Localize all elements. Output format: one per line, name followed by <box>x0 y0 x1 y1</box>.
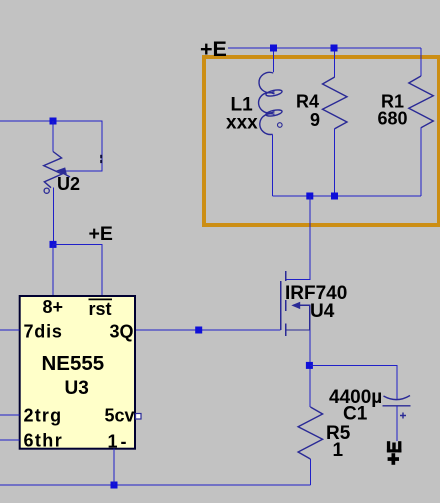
svg-text:+E: +E <box>89 223 113 245</box>
node junction source/C1 <box>306 362 313 369</box>
wire R1 bottom lead <box>420 128 422 196</box>
wiper arrow of U2 <box>60 172 70 178</box>
svg-text:7dis: 7dis <box>24 322 63 342</box>
wire 6thr <box>0 439 20 441</box>
wire 7dis <box>0 329 20 331</box>
unconnected pin marker 5cv <box>136 414 142 420</box>
svg-text:9: 9 <box>310 110 320 130</box>
svg-text:6thr: 6thr <box>24 431 64 451</box>
wire pin8 lead <box>52 244 54 296</box>
svg-text:3Q: 3Q <box>110 322 134 342</box>
wire R1 top lead <box>420 48 422 76</box>
potentiometer U2 <box>44 152 62 188</box>
transistor U4 IRF740 MOSFET <box>281 271 310 336</box>
wire R4 top lead <box>334 48 336 77</box>
node junction top R4 <box>331 45 338 52</box>
svg-text:C1: C1 <box>343 404 368 425</box>
wire gate from 3Q <box>135 329 281 331</box>
wire +E to rst pin <box>53 244 102 296</box>
wire R5 bottom lead <box>309 459 311 485</box>
IC U3 NE555 body <box>20 296 135 449</box>
wire source down to R5 <box>309 330 311 407</box>
junction ticks on wire right of U2 <box>100 155 102 159</box>
svg-text:R4: R4 <box>296 92 319 112</box>
node junction bottom bus pin1 <box>111 482 118 489</box>
wire 2trg <box>0 414 20 416</box>
resistor R1 <box>409 76 434 128</box>
node junction U2 top <box>50 118 57 125</box>
node junction top L1 <box>270 45 277 52</box>
svg-text:U3: U3 <box>65 378 89 399</box>
capacitor C1 <box>383 396 411 419</box>
wire bottom bus of tank circuit <box>273 195 422 197</box>
wire C1 bottom lead <box>396 406 398 441</box>
node junction +E U3 <box>50 241 57 248</box>
svg-text:5cv: 5cv <box>105 406 135 426</box>
wire U2 top node to wiper loop <box>53 121 102 171</box>
svg-text:xxx: xxx <box>226 113 258 134</box>
wire top bus +E to R1 <box>228 47 421 49</box>
highlight box (orange selection rectangle) <box>204 57 439 225</box>
resistor R4 <box>323 77 348 129</box>
wire U2 bottom lead <box>53 188 55 245</box>
svg-text:1-: 1- <box>108 432 130 452</box>
wire drain vertical <box>286 196 310 280</box>
wire L1 bottom lead <box>272 135 274 197</box>
node junction bottom R4 <box>331 193 338 200</box>
wire bottom bus <box>0 484 310 486</box>
wire U2 top lead <box>52 121 54 152</box>
svg-text:+E: +E <box>200 37 227 61</box>
svg-text:rst: rst <box>89 299 112 319</box>
wire branch to C1 <box>310 365 397 400</box>
svg-text:U4: U4 <box>310 301 335 322</box>
wire R4 bottom lead <box>334 129 336 196</box>
inductor L1 <box>259 72 283 134</box>
svg-text:8+: 8+ <box>43 297 64 317</box>
wire left top into U2 node <box>0 120 53 122</box>
open terminal circle of U2 <box>44 188 49 193</box>
wire L1 top lead <box>272 48 274 72</box>
node junction on gate wire <box>195 327 202 334</box>
svg-text:NE555: NE555 <box>42 352 105 375</box>
svg-text:2trg: 2trg <box>24 406 63 426</box>
svg-text:1: 1 <box>333 440 344 461</box>
svg-text:680: 680 <box>378 109 408 129</box>
wire pin1 down to bus <box>113 449 115 485</box>
svg-text:U2: U2 <box>57 174 80 194</box>
resistor R5 <box>298 407 323 459</box>
node +E bottom (rotated label) <box>387 441 402 465</box>
body arrow of U4 <box>291 302 300 309</box>
node junction bottom drain <box>306 193 313 200</box>
